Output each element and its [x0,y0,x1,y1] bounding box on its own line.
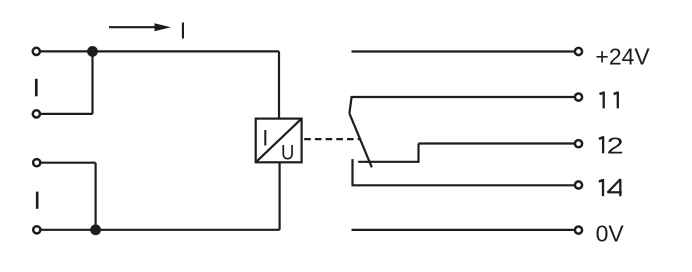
converter U1 box I/U [256,119,302,163]
node B junction [90,224,101,235]
terminal input 2 minus [33,226,40,233]
wire converter bottom to node B line [279,162,281,230]
converter diagonal [256,119,302,163]
wire node A down [91,51,93,114]
label 11 [600,92,619,109]
polarity bar input 2 [36,192,39,209]
wire input2-bottom to converter [41,229,279,231]
terminal input 1 minus [33,110,40,117]
switch lever [349,113,371,167]
label 14 [599,179,622,196]
contact 12 riser [358,144,418,162]
contact 14 bar [353,159,574,185]
terminal input 1 plus [33,48,40,55]
svg-text:U: U [281,142,294,165]
svg-text:0V: 0V [596,221,625,247]
wire input1-top to node A [41,50,279,52]
wire node A to converter top [278,51,280,118]
wire +24V line [352,50,574,52]
label 12 [599,136,604,153]
wire 11 line [349,97,574,113]
terminal +24V [575,48,582,55]
polarity bar input 1 [35,79,38,97]
terminal 12 [575,140,582,147]
current direction arrow [109,23,171,31]
terminal 11 [575,94,582,101]
wire input1-bottom [41,113,93,115]
node A junction [87,46,98,57]
terminal input 2 plus [33,159,40,166]
wire input2 vertical [94,163,96,230]
svg-text:2: 2 [607,133,624,158]
terminal 0V [575,227,582,234]
svg-text:I: I [262,126,268,151]
svg-text:+24V: +24V [595,44,650,70]
dashed actuation link [304,138,359,140]
svg-text:I: I [180,17,186,43]
wire 12 line [419,142,574,144]
wire 0V line [352,229,574,231]
terminal 14 [575,181,582,188]
wire input2-top [41,162,95,164]
